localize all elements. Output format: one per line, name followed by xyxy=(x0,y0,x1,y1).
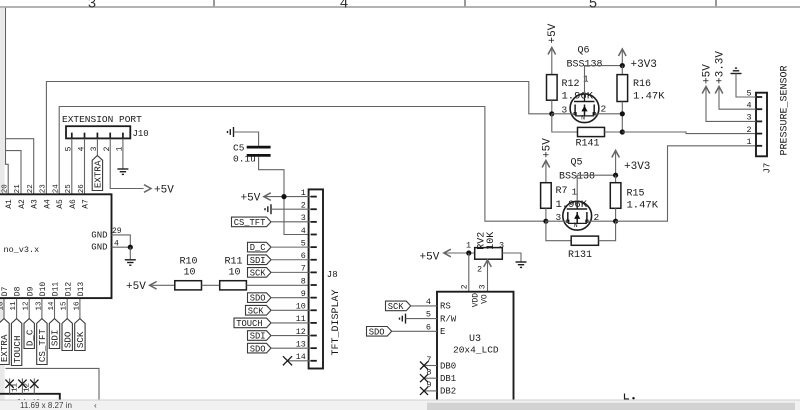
pin D7 label xyxy=(1,286,10,296)
no-connect pin7 xyxy=(420,362,428,370)
pin number 21 xyxy=(14,184,22,194)
wire J10 pin3 stub xyxy=(96,139,98,156)
pin D12 label xyxy=(64,282,73,297)
transistor Q5 xyxy=(559,158,595,231)
pin GND label xyxy=(91,230,107,240)
svg-text:23: 23 xyxy=(40,184,48,194)
pin number 10 xyxy=(0,301,6,311)
resistor R12 xyxy=(547,75,594,103)
wire net A1 xyxy=(6,8,9,195)
wire GND pin29 xyxy=(112,235,131,247)
pin number 4 J8 xyxy=(301,226,306,236)
wire gnd to pin5 xyxy=(406,318,438,320)
pin RW label xyxy=(440,314,457,324)
svg-text:J8: J8 xyxy=(327,270,338,280)
wire R16 to source node xyxy=(621,102,623,133)
resistor R141 xyxy=(576,127,605,149)
flag SCK pin10 xyxy=(246,305,272,316)
pin number 12 J8 xyxy=(296,327,306,337)
svg-text:R10: R10 xyxy=(180,256,198,267)
svg-text:N: N xyxy=(581,115,585,122)
pin number 2 RV2 xyxy=(477,264,482,274)
svg-text:DB1: DB1 xyxy=(440,374,456,384)
component bottom box xyxy=(0,394,60,401)
svg-text:A2: A2 xyxy=(18,199,27,209)
power +3V3 Q5 xyxy=(612,151,651,176)
pin DB2 label xyxy=(440,387,456,397)
resistor R16 xyxy=(617,75,665,103)
svg-text:+5V: +5V xyxy=(241,192,261,204)
wire Q5 source xyxy=(587,220,616,222)
ruler number 3 xyxy=(88,0,97,12)
svg-text:R/W: R/W xyxy=(440,314,457,324)
wire gate node down xyxy=(552,114,578,132)
svg-text:CS_TFT: CS_TFT xyxy=(234,218,266,228)
pin number 1 J7 xyxy=(746,137,751,147)
pin number 1 J8 xyxy=(301,188,306,198)
wire flag to pin4 xyxy=(411,305,437,307)
wire Q6 source xyxy=(594,113,622,115)
wire pin D11 stub xyxy=(54,299,56,319)
wire net A3 xyxy=(5,139,34,195)
svg-text:SCK: SCK xyxy=(248,306,265,316)
ground U3 pin5 xyxy=(400,314,406,324)
svg-text:4: 4 xyxy=(77,146,86,151)
pin number 5 J8 xyxy=(301,238,306,248)
wire +3V3 to R15 xyxy=(615,175,617,183)
flag D_C pin5 xyxy=(248,242,272,253)
value arduino_v3.x xyxy=(4,245,40,255)
pin RS label xyxy=(440,302,451,312)
pin number 11 xyxy=(10,301,18,311)
svg-text:EXTRA: EXTRA xyxy=(0,334,10,362)
pin number 12 xyxy=(23,301,31,310)
svg-text:D11: D11 xyxy=(52,282,61,297)
svg-text:1: 1 xyxy=(466,241,471,251)
component U3 box xyxy=(437,292,514,404)
junction Q5 gate node xyxy=(543,219,548,224)
pin number 5 J10 xyxy=(65,146,74,151)
svg-text:EXTENSION PORT: EXTENSION PORT xyxy=(62,114,142,125)
power +5V RV2 xyxy=(420,249,451,264)
pin A7 label xyxy=(82,199,91,209)
svg-text:no_v3.x: no_v3.x xyxy=(4,245,40,255)
pin DB0 label xyxy=(440,361,456,371)
wire flag pin11 xyxy=(271,322,311,324)
resistor R11 xyxy=(220,256,247,290)
wire pin7 stub xyxy=(425,365,438,367)
pin number 2 J7 xyxy=(746,125,751,135)
svg-text:1.47K: 1.47K xyxy=(633,90,665,102)
no-connect pinC xyxy=(30,380,38,388)
ground arduino GND xyxy=(125,260,136,265)
wire flag pin7 xyxy=(271,271,311,273)
svg-text:11: 11 xyxy=(11,382,19,392)
wire to ground xyxy=(129,247,131,259)
pin number 16 xyxy=(73,301,81,311)
svg-text:10: 10 xyxy=(0,301,6,311)
svg-text:22: 22 xyxy=(27,184,35,193)
wire to J7 pin2 xyxy=(622,132,756,134)
junction RV2 node xyxy=(466,250,471,255)
svg-text:3: 3 xyxy=(90,146,99,151)
wire net A2 xyxy=(5,151,21,195)
svg-text:SDO: SDO xyxy=(250,344,266,354)
pin number 5 J7 xyxy=(746,88,751,98)
svg-text:A6: A6 xyxy=(69,199,78,209)
svg-text:VDD: VDD xyxy=(472,293,481,308)
svg-text:R7: R7 xyxy=(556,186,568,197)
svg-text:24: 24 xyxy=(52,184,60,194)
wire Q6 drain xyxy=(585,66,623,94)
svg-text:SCK: SCK xyxy=(250,268,267,278)
wire gate node down Q5 xyxy=(546,221,571,241)
power +5V J7 xyxy=(702,64,757,122)
svg-text:+5V: +5V xyxy=(420,252,440,264)
flag SDO pin9 xyxy=(248,293,272,304)
svg-text:R141: R141 xyxy=(576,138,600,149)
wire GND pin4 xyxy=(112,246,131,248)
wire R141 to right node xyxy=(605,131,623,133)
pin number 13 J8 xyxy=(296,339,306,349)
svg-text:D7: D7 xyxy=(1,286,10,296)
svg-text:RS: RS xyxy=(440,302,451,312)
ruler left strip xyxy=(0,8,5,400)
pin number 7 U3 xyxy=(426,355,431,365)
component arduino_v3.x box xyxy=(0,194,112,298)
wire pin D9 stub xyxy=(28,299,30,319)
svg-text:10: 10 xyxy=(229,268,241,279)
pin number 1 Q6 xyxy=(583,74,589,85)
wire gnd to pin2 xyxy=(271,208,311,210)
wire pinC stub xyxy=(33,378,35,393)
partial text fragment xyxy=(625,394,635,400)
svg-text:21: 21 xyxy=(14,184,22,194)
pin number 12 bottom xyxy=(23,383,31,392)
pin VO label xyxy=(481,294,490,304)
wire R131 to right node xyxy=(599,221,616,241)
pin number 8 J8 xyxy=(301,276,306,286)
svg-text:3: 3 xyxy=(499,241,504,251)
svg-text:0.1u: 0.1u xyxy=(233,153,256,164)
svg-text:12: 12 xyxy=(23,383,31,392)
svg-text:PRESSURE_SENSOR: PRESSURE_SENSOR xyxy=(780,65,791,155)
reference U3 xyxy=(469,334,481,345)
pin number 10 J8 xyxy=(296,302,306,312)
svg-text:TFT_DISPLAY: TFT_DISPLAY xyxy=(331,289,342,355)
reference J7 xyxy=(763,163,773,174)
svg-text:3: 3 xyxy=(478,284,487,289)
power +5V J8 pin1 xyxy=(241,192,271,204)
wire net A4 to Q6 gate xyxy=(46,82,551,195)
flag CS_TFT xyxy=(37,319,48,365)
wire C5 bottom to J8 xyxy=(259,157,311,235)
wire pin D10 stub xyxy=(41,299,43,319)
flag EXTRA xyxy=(0,319,10,365)
pin number 2 Q6 xyxy=(601,104,607,115)
pin D10 label xyxy=(39,282,48,297)
wire J10 pin4 to A7 xyxy=(84,139,86,195)
svg-text:2: 2 xyxy=(477,264,482,274)
pin number 26 xyxy=(78,184,86,194)
pin number 1 RV2 xyxy=(466,241,471,251)
power +5V J10 xyxy=(144,185,174,197)
pin number 25 xyxy=(65,184,73,194)
svg-text:SDI: SDI xyxy=(50,330,61,347)
flag SCK pin7 xyxy=(248,268,272,279)
svg-text:26: 26 xyxy=(78,184,86,194)
svg-text:D_C: D_C xyxy=(250,243,266,253)
pin number 3 J7 xyxy=(746,113,751,123)
pin number 20 xyxy=(1,184,9,194)
svg-text:R131: R131 xyxy=(568,250,592,261)
svg-text:D13: D13 xyxy=(77,282,86,297)
svg-text:5: 5 xyxy=(589,0,598,12)
svg-text:DB0: DB0 xyxy=(440,361,456,371)
svg-text:+3V3: +3V3 xyxy=(624,161,650,173)
pin A4 label xyxy=(43,199,52,209)
svg-text:DB2: DB2 xyxy=(440,387,456,397)
svg-text:A1: A1 xyxy=(5,199,14,209)
pin number 8 U3 xyxy=(426,368,431,378)
wire to U3 VDD xyxy=(468,253,470,292)
svg-text:TOUCH: TOUCH xyxy=(236,319,262,329)
svg-text:A5: A5 xyxy=(56,199,65,209)
label TFT_DISPLAY xyxy=(331,289,342,355)
flag SDI xyxy=(49,319,60,349)
svg-text:1: 1 xyxy=(116,146,125,151)
resistor R7 xyxy=(541,183,588,211)
pin number 9 J8 xyxy=(301,289,306,299)
svg-text:1: 1 xyxy=(583,74,589,85)
power +3.3V J7 xyxy=(715,51,757,110)
pin number 3 Q6 xyxy=(562,105,568,116)
ground C5 xyxy=(228,127,234,137)
svg-text:D10: D10 xyxy=(39,282,48,297)
connector J10 xyxy=(66,126,149,139)
potentiometer RV2 xyxy=(475,232,503,292)
svg-text:J10: J10 xyxy=(133,129,149,139)
svg-text:SDO: SDO xyxy=(62,331,73,348)
pin number 14 xyxy=(48,301,56,311)
pin D9 label xyxy=(26,286,35,296)
flag SCK xyxy=(75,319,86,351)
value 20x4_LCD xyxy=(453,345,499,356)
pin number 11 J8 xyxy=(296,314,306,324)
no-connect pin9 xyxy=(420,387,428,395)
svg-text:10: 10 xyxy=(184,268,196,279)
flag CS_TFT pin3 xyxy=(232,217,272,228)
svg-text:R12: R12 xyxy=(562,79,580,90)
svg-text:+5V: +5V xyxy=(154,185,174,197)
pin number 9 U3 xyxy=(426,380,431,390)
svg-text:D9: D9 xyxy=(26,286,35,296)
svg-text:CS_TFT: CS_TFT xyxy=(37,329,48,363)
ground RV2 xyxy=(516,262,527,267)
pin number 4 U3 xyxy=(426,297,431,307)
wire flag pin6 xyxy=(271,259,311,261)
ruler tick xyxy=(213,0,215,6)
wire Q6 gate xyxy=(552,113,575,115)
resistor R15 xyxy=(610,183,658,212)
status bar text xyxy=(20,401,72,410)
pin D13 label xyxy=(77,282,86,297)
pin GND label xyxy=(91,242,107,252)
wire R15 to source node xyxy=(615,208,617,221)
wire RV2 pin3 to gnd xyxy=(502,253,521,262)
svg-text:+3.3V: +3.3V xyxy=(715,51,727,84)
flag SDO U3 pin6 xyxy=(367,327,392,338)
pin number 6 U3 xyxy=(426,322,431,332)
svg-text:1: 1 xyxy=(746,137,751,147)
svg-text:E: E xyxy=(440,327,445,337)
power +5V Q5 xyxy=(541,138,553,183)
svg-text:8: 8 xyxy=(301,276,306,286)
svg-text:+3V3: +3V3 xyxy=(631,59,657,71)
wire R12 to gate node xyxy=(551,100,553,114)
svg-text:D_C: D_C xyxy=(24,329,35,346)
no-connect pin14 xyxy=(283,356,292,365)
wire R10 to R11 xyxy=(202,284,220,286)
pin number 1 J10 xyxy=(116,146,125,151)
flag EXTRA J10 pin3 xyxy=(92,156,103,191)
wire pin D8 stub xyxy=(16,299,18,319)
wire +3V3 to R16 xyxy=(621,66,623,75)
wire pin D7 stub xyxy=(3,299,5,319)
svg-text:2: 2 xyxy=(461,284,470,289)
svg-text:2: 2 xyxy=(601,104,607,115)
svg-text:EXTRA: EXTRA xyxy=(93,160,104,188)
svg-text:1.47K: 1.47K xyxy=(627,199,659,211)
no-connect pin8 xyxy=(420,374,428,382)
svg-text:TOUCH: TOUCH xyxy=(12,336,23,364)
pin number 2 J10 xyxy=(103,146,112,151)
pin number 14 J8 xyxy=(296,352,306,362)
wire J10 pin1 to gnd xyxy=(122,139,124,169)
junction GND node xyxy=(128,245,133,250)
pin A5 label xyxy=(56,199,65,209)
svg-text:R15: R15 xyxy=(627,188,645,199)
pin number 2 J8 xyxy=(301,201,306,211)
pin A2 label xyxy=(18,199,27,209)
ground J8 pin2 xyxy=(265,204,271,214)
pin number 29 xyxy=(112,227,122,236)
wire flag pin3 xyxy=(271,221,311,223)
svg-text:20: 20 xyxy=(1,184,9,194)
pin number 3 J8 xyxy=(301,213,306,223)
resistor R131 xyxy=(568,236,599,261)
pin A1 label xyxy=(5,199,14,209)
power +5V R10 xyxy=(126,281,157,293)
wire flag pin10 xyxy=(271,309,311,311)
wire pin D12 stub xyxy=(66,299,68,319)
svg-text:5: 5 xyxy=(65,146,74,151)
svg-text:4: 4 xyxy=(340,0,349,12)
svg-text:SDI: SDI xyxy=(250,256,266,266)
wire pin8 stub xyxy=(425,377,438,379)
junction Q5 drain node xyxy=(613,173,618,178)
wire Q5 gate xyxy=(546,220,568,222)
flag TOUCH xyxy=(11,319,22,366)
wire +5V to pin1 xyxy=(264,196,310,198)
pin VDD label xyxy=(472,293,481,308)
svg-text:R16: R16 xyxy=(633,79,651,90)
ruler tick xyxy=(464,0,466,6)
svg-text:Q5: Q5 xyxy=(571,158,583,169)
power +5V Q6 xyxy=(547,23,559,74)
wire flag pin13 xyxy=(271,347,311,349)
svg-text:D8: D8 xyxy=(14,286,23,296)
svg-text:20x4_LCD: 20x4_LCD xyxy=(453,345,499,356)
pin number 13 xyxy=(35,301,43,311)
no-connect pinB xyxy=(18,380,26,388)
status bar xyxy=(0,400,800,410)
svg-text:3: 3 xyxy=(88,0,97,12)
svg-text:Q6: Q6 xyxy=(578,46,590,57)
svg-text:A3: A3 xyxy=(31,199,40,209)
svg-text:SDO: SDO xyxy=(250,294,266,304)
ruler number 5 xyxy=(589,0,598,12)
wire pin9 stub xyxy=(425,390,438,392)
junction Q6 drain node xyxy=(620,63,625,68)
pin number 11 bottom xyxy=(11,382,19,392)
svg-text:25: 25 xyxy=(65,184,73,194)
junction Q5 source node xyxy=(613,219,618,224)
wire R7 to gate node xyxy=(545,208,547,221)
value bottom box xyxy=(7,399,41,408)
pin DB1 label xyxy=(440,374,456,384)
flag SDO pin13 xyxy=(248,343,272,354)
svg-text:1: 1 xyxy=(572,187,578,198)
pin number 7 J8 xyxy=(301,264,306,274)
junction C5 net pin1 xyxy=(281,194,286,199)
ruler number 4 xyxy=(340,0,349,12)
ruler top line xyxy=(0,6,800,8)
svg-text:+5V: +5V xyxy=(702,64,714,84)
connector J8 xyxy=(309,189,323,368)
svg-text:A4: A4 xyxy=(43,199,52,209)
pin number 15 xyxy=(61,301,69,311)
flag SDO xyxy=(62,319,73,351)
pin number 4 J7 xyxy=(746,101,751,111)
ground J7 pin5 xyxy=(731,68,757,97)
svg-text:GND: GND xyxy=(91,242,107,252)
svg-text:7: 7 xyxy=(426,355,431,365)
svg-text:A7: A7 xyxy=(82,199,91,209)
status bar arrow xyxy=(94,401,97,410)
wire R11 to J8 pin8 xyxy=(246,284,310,286)
flag D_C xyxy=(24,319,35,349)
wire J10 pin5 to A6 xyxy=(71,139,73,195)
wire pin D13 stub xyxy=(79,299,81,319)
svg-text:4: 4 xyxy=(301,226,306,236)
svg-text:SCK: SCK xyxy=(75,331,86,348)
svg-text:J7: J7 xyxy=(763,163,773,174)
pin number 2 Q5 xyxy=(594,212,600,223)
wire pin14 stub xyxy=(287,360,311,362)
svg-text:D12: D12 xyxy=(64,282,73,297)
label EXTENSION PORT xyxy=(62,114,142,125)
svg-text:+5V: +5V xyxy=(547,23,559,43)
svg-text:SDI: SDI xyxy=(250,332,266,342)
flag SDI pin6 xyxy=(248,255,272,266)
ruler tick xyxy=(715,0,717,6)
pin D8 label xyxy=(14,286,23,296)
flag SDI pin12 xyxy=(248,331,272,342)
connector J7 xyxy=(756,93,767,157)
wire flag pin9 xyxy=(271,297,311,299)
wire +5V to RV2 xyxy=(444,252,475,254)
